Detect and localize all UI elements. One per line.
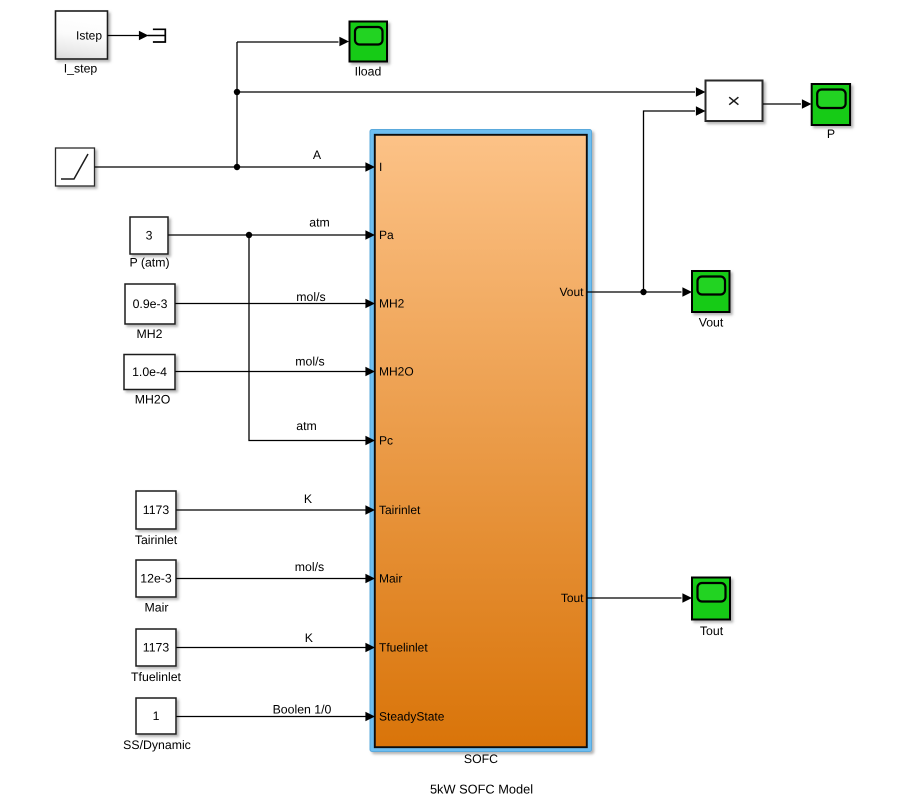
wire ramp to SOFC port I [95,166,367,168]
svg-text:K: K [304,492,313,506]
wire 3 to SOFC port Pa [169,234,367,236]
scope Tout [692,578,730,620]
svg-text:1.0e-4: 1.0e-4 [132,365,167,379]
svg-text:Tfuelinlet: Tfuelinlet [379,641,428,655]
arrowhead into port MH2 [365,299,375,308]
wire vertical branch to Pc [249,235,366,441]
wire SS/Dynamic to SOFC [177,716,367,718]
junction on Pa wire [246,232,252,238]
wire branch to product block input 1 [237,91,695,93]
scope P [812,84,850,125]
svg-text:Tairinlet: Tairinlet [379,503,421,517]
junction on vertical branch [234,89,240,95]
svg-text:3: 3 [146,229,153,243]
wire Mair to SOFC [177,578,367,580]
svg-text:Vout: Vout [559,285,584,299]
junction on ramp wire [234,164,240,170]
svg-text:mol/s: mol/s [295,560,324,574]
scope Iload [350,22,388,62]
svg-text:Tairinlet: Tairinlet [135,533,178,547]
svg-text:0.9e-3: 0.9e-3 [133,297,168,311]
svg-text:Mair: Mair [379,572,402,586]
svg-text:I_step: I_step [64,62,98,76]
svg-text:Vout: Vout [699,316,724,330]
svg-text:I: I [379,160,382,174]
svg-text:SS/Dynamic: SS/Dynamic [123,738,191,752]
subsystem SOFC highlighted frame [370,130,592,752]
arrowhead into P scope [802,99,812,108]
arrowhead into product input 2 [696,106,706,115]
constant block 1 (SS/Dynamic) [136,698,176,734]
product block [706,81,763,122]
svg-text:MH2O: MH2O [135,393,171,407]
wire Tairinlet to SOFC [177,509,367,511]
svg-text:atm: atm [309,216,330,230]
arrowhead into terminator [139,31,149,40]
arrowhead into product input 1 [696,87,706,96]
arrowhead into port Tfuelinlet [365,643,375,652]
constant block 1173 (Tfuelinlet) [136,629,176,666]
arrowhead into Tout scope [682,593,692,602]
svg-text:P: P [827,127,835,141]
wire vertical branch up from ramp wire [236,42,238,167]
arrowhead into port Pc [365,436,375,445]
svg-text:Boolen 1/0: Boolen 1/0 [273,703,332,717]
subsystem SOFC body [375,135,587,747]
svg-text:mol/s: mol/s [296,290,325,304]
constant block 3 [130,217,168,254]
svg-text:MH2O: MH2O [379,365,414,379]
svg-text:Tout: Tout [700,624,724,638]
arrowhead into port MH2O [365,367,375,376]
svg-text:Istep: Istep [76,29,102,43]
arrowhead into port Tairinlet [365,505,375,514]
wire Tfuelinlet to SOFC [177,647,367,649]
arrowhead into port I [365,162,375,171]
junction on Vout wire [640,289,646,295]
svg-text:12e-3: 12e-3 [140,572,172,586]
arrowhead into port SteadyState [365,712,375,721]
svg-text:Pa: Pa [379,228,394,242]
wire Tout to scope [587,597,682,599]
constant block 0.9e-3 [125,284,175,324]
wire branch to Iload scope [237,41,339,43]
constant block 1173 (Tairinlet) [136,491,176,529]
svg-text:Tfuelinlet: Tfuelinlet [131,670,181,684]
svg-text:K: K [305,631,314,645]
svg-text:Iload: Iload [355,65,382,79]
svg-text:5kW SOFC Model: 5kW SOFC Model [430,782,533,797]
svg-text:MH2: MH2 [137,327,163,341]
wire stub into terminator [148,35,166,37]
wire product output to P scope [763,103,801,105]
step source block I_step [56,11,108,59]
ramp block [56,148,95,186]
arrowhead into port Mair [365,574,375,583]
svg-text:SteadyState: SteadyState [379,710,445,724]
wire MH2 to SOFC port MH2 [176,303,367,305]
arrowhead into Iload [339,37,349,46]
svg-text:SOFC: SOFC [464,752,498,766]
arrowhead into Vout scope [682,287,692,296]
arrowhead into port Pa [365,230,375,239]
svg-text:Mair: Mair [145,601,169,615]
svg-text:P (atm): P (atm) [129,256,169,270]
constant block 1.0e-4 [124,355,175,390]
wire Vout branch up to product input 2 [644,111,696,292]
svg-text:mol/s: mol/s [295,355,324,369]
svg-text:1173: 1173 [143,641,170,655]
scope Vout [692,271,730,312]
terminator symbol [153,29,165,42]
svg-text:atm: atm [296,419,317,433]
wire Istep to terminator [108,35,141,37]
svg-text:1173: 1173 [143,503,170,517]
svg-text:A: A [313,148,322,162]
svg-text:MH2: MH2 [379,297,405,311]
svg-text:1: 1 [153,709,160,723]
svg-text:Tout: Tout [561,591,584,605]
wire MH2O to SOFC port MH2O [176,371,367,373]
wire Vout to scope [587,291,682,293]
svg-text:Pc: Pc [379,434,393,448]
constant block 12e-3 (Mair) [136,560,176,597]
